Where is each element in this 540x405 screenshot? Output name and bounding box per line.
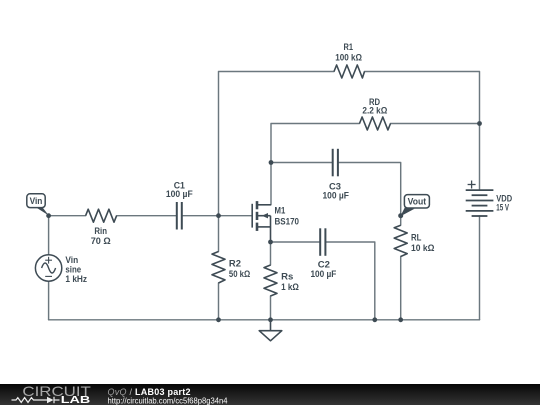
svg-text:R2: R2 [229, 258, 241, 269]
junction RD/VDD rail [477, 121, 482, 126]
resistor Rs [264, 265, 277, 296]
wire Rin to C1 [117, 215, 177, 217]
wire Rs bottom [270, 296, 272, 320]
junction ground rail [268, 317, 273, 322]
svg-text:1 kHz: 1 kHz [65, 274, 87, 285]
transistor M1 (NMOS BS170) [252, 201, 271, 242]
logo squiggle (resistor + diode) [12, 397, 60, 403]
junction R2 bottom [216, 317, 221, 322]
wire RL bottom to ground rail [400, 257, 402, 320]
wire C3 right down to Vout node [338, 163, 401, 226]
wire R2 top [218, 216, 220, 252]
node flag Vin [27, 194, 49, 216]
junction gate node [216, 213, 221, 218]
footer bar [0, 384, 540, 405]
svg-text:http://circuitlab.com/cc5f68p8: http://circuitlab.com/cc5f68p8g34n4 [108, 395, 228, 405]
svg-text:RL: RL [411, 233, 422, 244]
svg-text:M1: M1 [275, 206, 286, 217]
resistor R1 [334, 65, 365, 78]
node flag Vout [398, 195, 429, 219]
capacitor C3 [333, 149, 338, 177]
svg-text:100 µF: 100 µF [166, 189, 193, 200]
resistor Rin [86, 209, 117, 222]
wire input rail left: Vin node to Rin [49, 215, 86, 217]
junction source node [268, 240, 273, 245]
svg-text:100 kΩ: 100 kΩ [335, 53, 362, 64]
svg-text:100 µF: 100 µF [310, 269, 336, 280]
wire RD left branch vertical to M1 drain [271, 124, 360, 205]
junction drain/C3 node [269, 160, 274, 165]
svg-text:2.2 kΩ: 2.2 kΩ [362, 105, 387, 116]
svg-text:1 kΩ: 1 kΩ [281, 282, 299, 293]
battery VDD [466, 190, 494, 216]
svg-text:R1: R1 [344, 42, 354, 53]
svg-text:10 kΩ: 10 kΩ [411, 243, 435, 254]
wire Vin source bottom [48, 281, 50, 320]
ground [259, 320, 282, 341]
wire VDD battery bottom [479, 216, 481, 320]
junction RL bottom [398, 317, 403, 322]
svg-text:15 V: 15 V [496, 203, 509, 214]
junction C2 bottom [372, 317, 377, 322]
svg-text:50 kΩ: 50 kΩ [229, 269, 251, 280]
wire bottom ground rail [49, 319, 480, 321]
wire R1 left branch vertical [219, 72, 335, 216]
wire Vin source top [48, 216, 50, 255]
wire R2 bottom [218, 283, 220, 320]
wire Rs top [270, 242, 272, 265]
wire M1 source node to C2 [271, 241, 321, 243]
svg-text:100 µF: 100 µF [322, 191, 349, 202]
svg-text:70 Ω: 70 Ω [91, 236, 111, 247]
junction Vin node [46, 213, 51, 218]
svg-text:Vin: Vin [30, 196, 43, 206]
resistor RL [394, 225, 407, 256]
resistor R2 [212, 252, 225, 284]
wire C1 to M1 gate (through node at x=218.5) [182, 215, 252, 217]
capacitor C2 [320, 228, 325, 256]
voltage source Vin (sine) [35, 255, 61, 281]
svg-text:LAB: LAB [61, 395, 91, 405]
battery plus sign [468, 181, 476, 189]
svg-text:BS170: BS170 [275, 217, 300, 228]
resistor RD [360, 117, 391, 130]
wire C3 left from drain branch [271, 162, 333, 164]
svg-text:Rs: Rs [281, 272, 293, 283]
capacitor C1 [177, 202, 182, 230]
svg-text:Vout: Vout [408, 197, 427, 207]
wire R1 right to VDD top [365, 72, 480, 191]
wire RD right to VDD rail junction [391, 123, 480, 125]
wire C2 right down to ground rail [326, 242, 375, 320]
